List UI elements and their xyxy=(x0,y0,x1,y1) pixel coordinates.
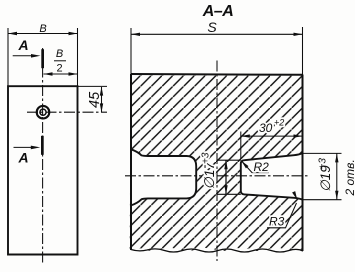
svg-text:45: 45 xyxy=(87,91,103,108)
svg-text:A: A xyxy=(18,149,29,165)
svg-text:B: B xyxy=(56,48,63,60)
svg-text:+3: +3 xyxy=(201,152,212,164)
svg-text:A–A: A–A xyxy=(202,3,234,20)
svg-text:B: B xyxy=(39,23,46,35)
svg-text:2: 2 xyxy=(56,63,62,75)
svg-text:R2: R2 xyxy=(254,160,270,174)
svg-text:S: S xyxy=(207,19,217,35)
svg-text:2 отв.: 2 отв. xyxy=(343,159,355,196)
svg-text:+2: +2 xyxy=(274,118,284,128)
svg-text:30: 30 xyxy=(259,121,273,135)
svg-text:+3: +3 xyxy=(318,158,329,170)
svg-text:R3: R3 xyxy=(269,215,285,229)
svg-text:A: A xyxy=(18,37,29,53)
